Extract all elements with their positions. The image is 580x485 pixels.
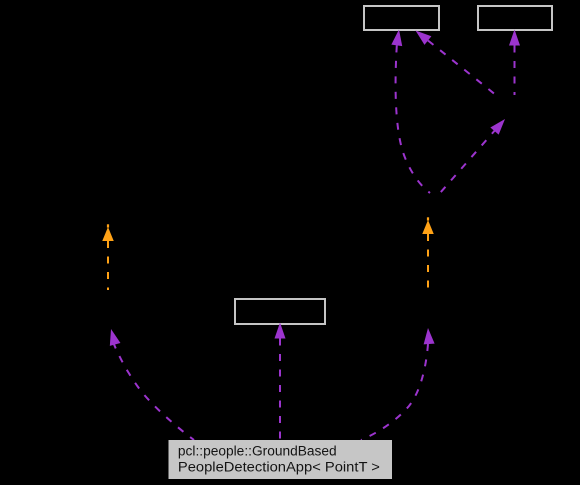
wire: purple dashed edge N1->boxB (vertical) bbox=[514, 46, 516, 96]
wire: purple dashed edge main->N3 (right curve) bbox=[361, 344, 428, 440]
svg-text:PeopleDetectionApp< PointT >: PeopleDetectionApp< PointT > bbox=[178, 460, 380, 476]
arrowhead of edge main->boxC bbox=[275, 323, 286, 339]
arrowhead of edge N4->N5 bbox=[102, 227, 114, 241]
wire: purple dashed edge N2->boxA (curved left) bbox=[396, 45, 430, 193]
wire: orange dashed edge N3->N2 (right template arrow) bbox=[427, 234, 429, 288]
arrowhead of edge main->N4 bbox=[106, 328, 121, 346]
node boxA (top-left empty class box) bbox=[364, 6, 439, 30]
arrowhead of edge N2->N1 bbox=[490, 115, 509, 134]
node boxB (top-right empty class box) bbox=[478, 6, 552, 30]
wire: orange dashed edge N4->N5 (left template arrow) bbox=[107, 241, 109, 290]
node main: pcl::people::GroundBasedPeopleDetectionApp< PointT > bbox=[169, 440, 393, 479]
wire: purple dashed edge N2->N1 (diagonal up-right) bbox=[440, 129, 497, 194]
arrowhead of edge main->N3 bbox=[423, 328, 435, 345]
arrowhead of edge N3->N2 bbox=[422, 220, 434, 234]
wire: purple dashed edge main->boxC (middle vertical) bbox=[279, 339, 281, 441]
node boxC (middle empty class box) bbox=[235, 299, 325, 324]
arrowhead of edge N1->boxA bbox=[412, 26, 431, 45]
svg-text:pcl::people::GroundBased: pcl::people::GroundBased bbox=[178, 444, 337, 460]
arrowhead of edge N1->boxB bbox=[509, 30, 520, 46]
arrowhead of edge N2->boxA bbox=[391, 29, 404, 46]
wire: purple dashed edge N1->boxA (diagonal up-left) bbox=[428, 41, 494, 94]
wire: purple dashed edge main->N4 (left curve) bbox=[113, 342, 194, 440]
